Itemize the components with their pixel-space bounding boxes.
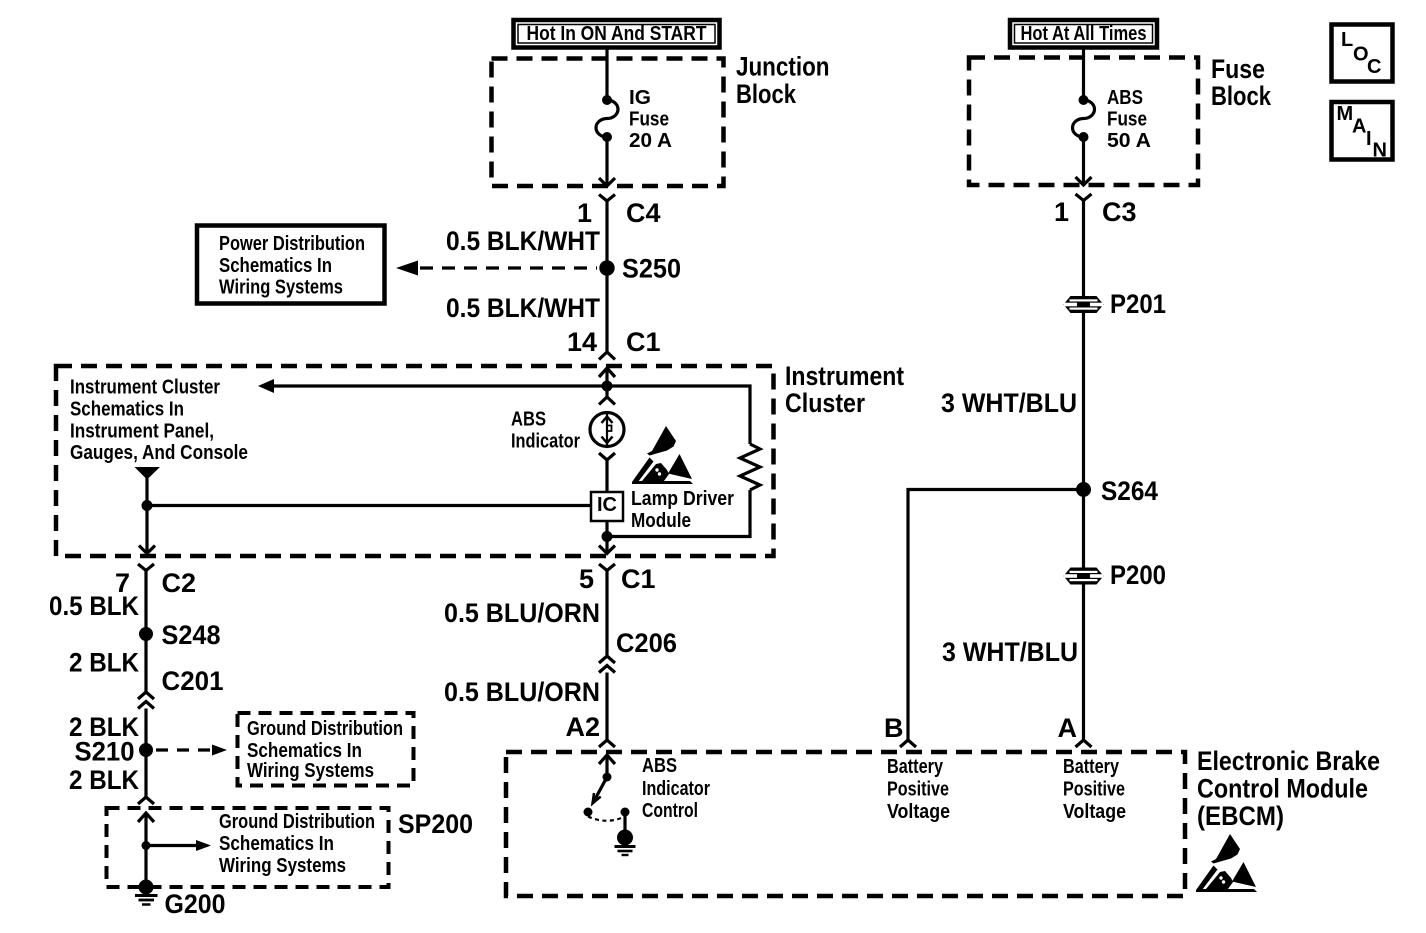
svg-text:Gauges, And Console: Gauges, And Console	[70, 442, 248, 464]
svg-text:ABS: ABS	[642, 755, 677, 777]
svg-text:2 BLK: 2 BLK	[69, 648, 139, 678]
socket cup below bulb	[599, 453, 615, 492]
svg-text:C2: C2	[162, 568, 197, 598]
wire C201 to SP200	[144, 709, 147, 798]
svg-text:SP200: SP200	[398, 809, 473, 839]
svg-text:C201: C201	[162, 666, 224, 696]
svg-text:Wiring Systems: Wiring Systems	[219, 855, 346, 877]
svg-text:0.5 BLK: 0.5 BLK	[49, 591, 139, 621]
LOC page box	[1332, 25, 1393, 82]
svg-text:Instrument Panel,: Instrument Panel,	[70, 421, 214, 443]
pin 14 C1 labels	[567, 327, 661, 357]
long arrow wire to cluster schematics	[258, 379, 607, 393]
svg-text:L: L	[1341, 29, 1353, 51]
pin 1 C4 labels	[577, 198, 661, 228]
svg-text:C206: C206	[616, 628, 677, 658]
svg-text:Hot In ON And START: Hot In ON And START	[527, 23, 707, 45]
svg-text:Schematics In: Schematics In	[219, 833, 334, 855]
svg-text:3 WHT/BLU: 3 WHT/BLU	[942, 637, 1078, 667]
fuse IG 20A	[596, 95, 618, 142]
connector C1 cup bottom	[599, 564, 615, 571]
svg-text:IG: IG	[629, 87, 651, 109]
svg-text:IC: IC	[597, 494, 617, 516]
svg-text:0.5 BLK/WHT: 0.5 BLK/WHT	[446, 293, 600, 323]
svg-text:Lamp Driver: Lamp Driver	[631, 488, 734, 510]
ABS Indicator Control label	[642, 755, 710, 822]
fuse block dashed box	[969, 58, 1198, 186]
svg-text:P200: P200	[1110, 560, 1166, 590]
svg-text:G200: G200	[165, 889, 226, 919]
svg-text:I: I	[1366, 128, 1372, 150]
svg-text:S264: S264	[1101, 476, 1158, 506]
ABS Indicator label	[511, 409, 580, 453]
wire C206 to A2	[605, 673, 608, 741]
svg-text:Indicator: Indicator	[642, 778, 710, 800]
wire C3 to S264	[1082, 201, 1085, 490]
svg-text:14: 14	[567, 327, 597, 357]
junction block label	[736, 52, 830, 110]
pin 1 C3 labels	[1054, 197, 1137, 227]
svg-text:Ground Distribution: Ground Distribution	[219, 811, 375, 833]
svg-text:Block: Block	[1211, 81, 1272, 111]
svg-text:ABS: ABS	[511, 409, 546, 431]
svg-text:3 WHT/BLU: 3 WHT/BLU	[941, 388, 1077, 418]
chevron above SP200	[138, 797, 154, 804]
svg-text:C1: C1	[626, 327, 661, 357]
svg-text:C4: C4	[626, 198, 661, 228]
svg-text:Instrument: Instrument	[785, 361, 904, 391]
svg-text:N: N	[1373, 140, 1387, 162]
IG fuse value label	[629, 87, 672, 152]
Lamp Driver Module label	[631, 488, 734, 532]
svg-text:S250: S250	[622, 254, 681, 284]
fuse block label	[1211, 54, 1272, 111]
svg-text:Fuse: Fuse	[629, 109, 669, 131]
Battery Positive Voltage label B	[887, 756, 950, 823]
svg-text:Control: Control	[642, 800, 698, 822]
dashed reference arrow from S210	[156, 745, 227, 756]
svg-text:S248: S248	[162, 620, 221, 650]
svg-text:A: A	[1058, 713, 1078, 743]
connector C2 cup	[138, 564, 154, 571]
power label box "Hot In ON And START"	[514, 20, 720, 48]
MAIN page box	[1332, 102, 1393, 162]
pin 7 C2 labels	[115, 568, 196, 598]
wire fuse to C3 with arrow	[1076, 137, 1092, 185]
socket chevron above bulb	[599, 386, 615, 405]
dashed reference arrow to Power Distribution	[396, 261, 597, 276]
arrow up into SP200	[138, 813, 154, 887]
wire S264 to P200	[1082, 490, 1085, 741]
svg-text:B: B	[884, 713, 904, 743]
svg-text:A: A	[1352, 116, 1366, 138]
svg-text:A2: A2	[565, 712, 600, 742]
node junction left branch	[142, 500, 153, 511]
svg-text:Positive: Positive	[1063, 779, 1125, 801]
junction block dashed box	[492, 59, 724, 187]
connector A chevron at EBCM	[1076, 740, 1092, 747]
svg-text:Junction: Junction	[736, 52, 830, 82]
grommet P200	[1064, 568, 1104, 585]
svg-text:Voltage: Voltage	[887, 801, 950, 823]
svg-text:Wiring Systems: Wiring Systems	[219, 277, 343, 299]
svg-text:Fuse: Fuse	[1211, 54, 1265, 84]
ABS fuse value label	[1107, 87, 1151, 152]
ground G200	[135, 880, 158, 905]
Battery Positive Voltage label A	[1063, 756, 1126, 823]
svg-text:Indicator: Indicator	[511, 431, 580, 453]
node junction below IC	[602, 531, 613, 542]
EBCM dashed box	[506, 752, 1185, 896]
wire fuse to C4 with arrow	[599, 137, 615, 186]
ground inside EBCM	[615, 812, 636, 855]
svg-text:(EBCM): (EBCM)	[1197, 801, 1284, 831]
EBCM label	[1197, 746, 1380, 831]
lamp ABS indicator bulb	[590, 413, 624, 447]
fuse ABS 50A	[1073, 95, 1095, 142]
pin 5 C1 labels	[579, 564, 656, 594]
node junction above lamp	[602, 381, 613, 392]
Power Distribution reference box	[197, 226, 385, 304]
wire from Hot At All Times to ABS fuse	[1082, 46, 1085, 100]
wire from Hot In ON to IG fuse	[605, 46, 608, 100]
svg-text:Fuse: Fuse	[1107, 109, 1147, 131]
svg-text:Battery: Battery	[887, 756, 944, 778]
arrow down out of cluster center	[599, 537, 615, 554]
connector C201 double chevron	[138, 692, 154, 709]
triangle tap from cluster note	[135, 467, 161, 554]
wire C2 to C201	[144, 571, 147, 693]
svg-text:Wiring Systems: Wiring Systems	[247, 760, 374, 782]
svg-text:Battery: Battery	[1063, 756, 1120, 778]
arrow up into cluster at C1	[599, 368, 615, 386]
ESD symbol at EBCM	[1196, 834, 1257, 892]
svg-text:M: M	[1337, 103, 1354, 125]
svg-text:Positive: Positive	[887, 779, 949, 801]
connector A2 chevron	[599, 740, 615, 747]
connector C3 cup	[1076, 194, 1092, 201]
svg-text:1: 1	[577, 198, 592, 228]
connector C206 double chevron	[599, 656, 615, 673]
wire left branch to IC	[147, 504, 591, 507]
svg-text:0.5 BLK/WHT: 0.5 BLK/WHT	[446, 226, 600, 256]
svg-text:Voltage: Voltage	[1063, 801, 1126, 823]
svg-text:Control Module: Control Module	[1197, 774, 1368, 804]
svg-text:Schematics In: Schematics In	[70, 399, 184, 421]
node junction in SP200	[142, 841, 151, 850]
wire C4 to C1 through S250	[605, 201, 608, 352]
instrument cluster schematics note	[70, 377, 248, 465]
wire C1 to C206	[605, 571, 608, 657]
grommet P201	[1064, 296, 1104, 313]
svg-text:P201: P201	[1110, 289, 1166, 319]
Ground Distribution reference box upper	[238, 713, 414, 786]
connector C1 chevron	[599, 352, 615, 360]
svg-text:50 A: 50 A	[1107, 130, 1151, 152]
resistor loop wire right branch	[607, 386, 760, 537]
svg-text:C: C	[1367, 56, 1381, 78]
svg-text:2 BLK: 2 BLK	[69, 765, 139, 795]
connector C4 cup	[599, 195, 615, 202]
svg-text:Schematics In: Schematics In	[247, 740, 362, 762]
IC lamp driver module box	[591, 492, 623, 521]
splice S250	[599, 260, 614, 275]
switch ABS indicator control	[584, 773, 630, 821]
svg-text:Module: Module	[631, 510, 691, 532]
instrument cluster dashed box	[56, 366, 774, 556]
branch wire S264 to EBCM B	[900, 490, 1084, 748]
svg-text:0.5 BLU/ORN: 0.5 BLU/ORN	[444, 598, 600, 628]
svg-text:S210: S210	[75, 737, 135, 767]
ESD symbol in cluster	[632, 426, 693, 484]
svg-text:1: 1	[1054, 197, 1069, 227]
arrow down out of cluster left	[139, 546, 155, 554]
svg-text:C1: C1	[621, 564, 656, 594]
arrow to ground schematics	[146, 840, 211, 851]
svg-text:ABS: ABS	[1107, 87, 1143, 109]
svg-text:Instrument Cluster: Instrument Cluster	[70, 377, 220, 399]
svg-text:Cluster: Cluster	[785, 388, 865, 418]
splice S264	[1076, 482, 1091, 497]
svg-text:Hot At All Times: Hot At All Times	[1021, 23, 1147, 45]
svg-text:Power Distribution: Power Distribution	[219, 233, 365, 255]
svg-text:C3: C3	[1102, 197, 1137, 227]
splice S210	[139, 743, 153, 757]
svg-text:Electronic Brake: Electronic Brake	[1197, 746, 1380, 776]
wire IC to lower node	[605, 521, 608, 537]
Ground Distribution note in SP200	[219, 811, 375, 877]
splice S248	[139, 627, 153, 641]
svg-text:Block: Block	[736, 79, 797, 109]
SP200 dashed box	[107, 808, 389, 887]
arrow up into EBCM	[599, 755, 615, 777]
power label box "Hot At All Times"	[1010, 20, 1157, 48]
svg-text:Schematics In: Schematics In	[219, 255, 332, 277]
svg-text:20 A: 20 A	[629, 130, 672, 152]
svg-text:Ground Distribution: Ground Distribution	[247, 718, 403, 740]
instrument cluster label	[785, 361, 904, 418]
svg-text:5: 5	[579, 564, 594, 594]
svg-text:0.5 BLU/ORN: 0.5 BLU/ORN	[444, 677, 600, 707]
